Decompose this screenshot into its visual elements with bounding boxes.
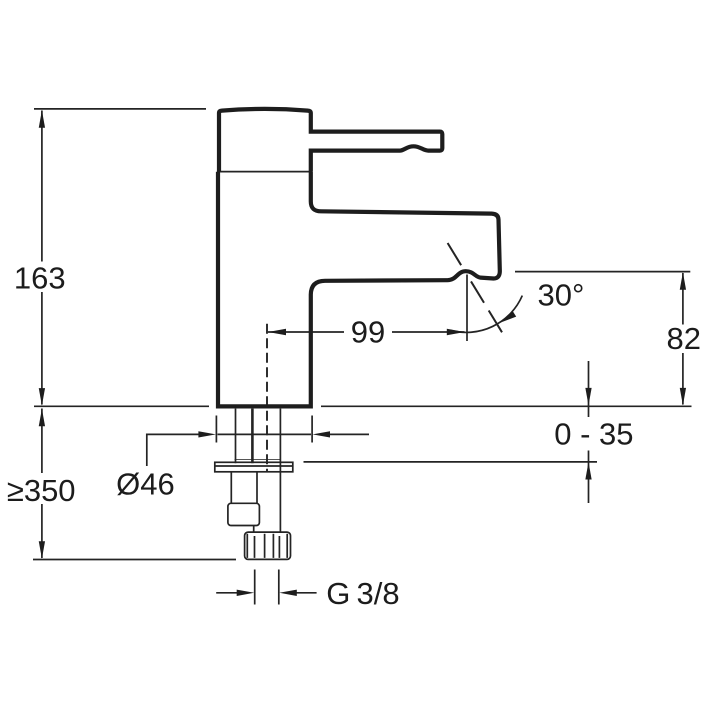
dimension 82 line lower segment xyxy=(682,353,684,405)
dimension 99 line left segment xyxy=(268,331,344,333)
arrowhead 82 top xyxy=(680,272,686,290)
joint line between cartridge cap and body xyxy=(217,171,313,173)
knurl rib 6 xyxy=(286,534,288,558)
top reference line (spout top level) xyxy=(34,108,206,110)
G3/8 right extension line xyxy=(278,570,280,605)
supply shank outer left line xyxy=(235,409,237,464)
dimension 163 line lower segment xyxy=(41,292,43,405)
dimension >=350 line lower segment xyxy=(41,504,43,558)
arrowhead 30 degree arc xyxy=(500,311,516,323)
svg-text:G 3/8: G 3/8 xyxy=(326,576,399,611)
seal washer top line xyxy=(235,459,282,461)
82 top reference line (aerator level) xyxy=(515,271,690,273)
Ø46 leader line xyxy=(147,434,200,466)
Ø46 right arrow shaft xyxy=(329,433,370,435)
knurled hose nut body xyxy=(245,532,291,559)
mounting flange rectangle xyxy=(215,462,293,472)
fixing stud right edge xyxy=(256,472,258,504)
0-35 upper arrow shaft xyxy=(588,361,590,417)
svg-text:163: 163 xyxy=(14,261,66,296)
G3/8 left arrow shaft xyxy=(216,592,238,594)
Ø46 right extension tick xyxy=(311,416,313,443)
30 degree dashed incline line xyxy=(448,243,502,332)
arrowhead 82 bottom xyxy=(680,388,686,406)
svg-text:Ø46: Ø46 xyxy=(116,467,175,502)
arrowhead G3/8 left xyxy=(237,590,255,596)
30 degree angle arc xyxy=(450,296,522,333)
arrowhead Ø46 left xyxy=(198,431,216,437)
dimension 163 line upper segment xyxy=(41,111,43,262)
arrowhead 0-35 up xyxy=(585,462,591,480)
svg-text:≥350: ≥350 xyxy=(7,473,76,508)
arrowhead >=350 bottom xyxy=(39,541,45,559)
supply shank inner double line xyxy=(251,409,254,464)
faucet center axis dashed line xyxy=(266,324,268,472)
arrowhead 99 left xyxy=(268,329,286,335)
svg-text:0 - 35: 0 - 35 xyxy=(554,417,633,452)
dimension 82 line upper segment xyxy=(682,273,684,325)
countertop base line right segment xyxy=(321,405,692,407)
knurl rib 2 xyxy=(254,536,256,558)
supply hose right edge line xyxy=(279,409,281,532)
dimension 99 line right segment xyxy=(392,331,465,333)
faucet body, spout and base outline xyxy=(218,172,500,407)
>=350 bottom reference line (hose end) xyxy=(33,559,236,561)
arrowhead 163 top xyxy=(39,110,45,128)
knurl rib 1 xyxy=(246,534,248,558)
fixing stud left edge xyxy=(230,472,232,504)
Ø46 left extension tick xyxy=(215,416,217,443)
dimension >=350 line upper segment xyxy=(41,409,43,474)
countertop base line left segment xyxy=(34,405,209,407)
knurl rib 4 xyxy=(272,534,274,558)
stub between nut and knurled nut xyxy=(253,526,255,533)
arrowhead Ø46 right xyxy=(313,431,331,437)
0-35 counter bottom reference line xyxy=(304,461,598,463)
arrowhead G3/8 right xyxy=(279,590,297,596)
G3/8 right arrow shaft xyxy=(296,592,317,594)
knurl rib 5 xyxy=(278,536,280,558)
arrowhead 163 bottom xyxy=(39,388,45,406)
knurl rib 3 xyxy=(264,534,266,558)
fixing nut xyxy=(228,503,260,525)
arrowhead 0-35 down xyxy=(585,388,591,406)
svg-text:82: 82 xyxy=(667,321,701,356)
svg-text:99: 99 xyxy=(351,314,385,349)
arrowhead >=350 top xyxy=(39,409,45,427)
svg-text:30°: 30° xyxy=(538,278,585,313)
aerator tip vertical extension line xyxy=(466,275,468,342)
0-35 lower arrow shaft xyxy=(588,451,590,504)
mounting flange mid line xyxy=(215,465,293,467)
Ø46 dimension line between ticks xyxy=(218,433,312,435)
G3/8 left extension line xyxy=(254,570,256,605)
faucet cartridge cap and lever handle outline xyxy=(219,109,442,172)
arrowhead 99 right xyxy=(447,329,465,335)
